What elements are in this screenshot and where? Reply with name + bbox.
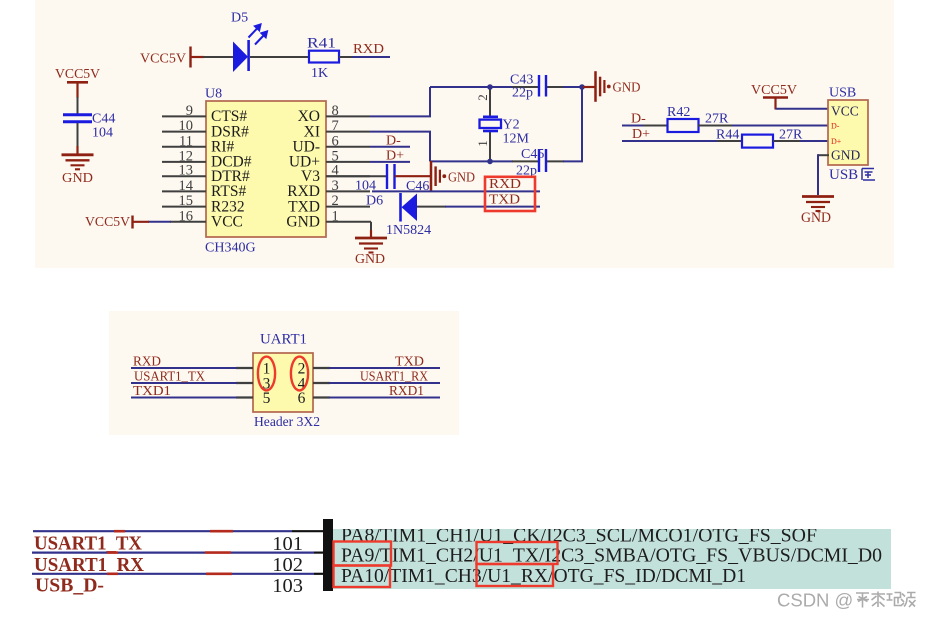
svg-text:R44: R44 — [716, 128, 739, 143]
svg-text:RXD: RXD — [133, 354, 161, 369]
wire — [776, 108, 830, 110]
svg-text:R42: R42 — [667, 105, 690, 120]
wire / net label TXD — [329, 367, 440, 369]
highlight box RXD/TXD — [485, 177, 535, 211]
capacitor C46 104 (on V3) — [326, 175, 386, 177]
junction node — [487, 159, 493, 165]
wire / net label RXD — [131, 367, 237, 369]
svg-text:PA10/TIM1_CH3/U1_RX/OTG_FS_ID/: PA10/TIM1_CH3/U1_RX/OTG_FS_ID/DCMI_D1 — [341, 565, 746, 587]
wire right vertical — [581, 87, 583, 161]
ground GND (C46) — [430, 161, 433, 192]
UART1 pin 1 — [236, 367, 253, 369]
svg-text:GND: GND — [831, 147, 860, 162]
svg-text:TXD: TXD — [395, 354, 424, 369]
ground GND (USB) — [802, 195, 834, 198]
svg-text:PA8/TIM1_CH1/U1_CK/I2C3_SCL/MC: PA8/TIM1_CH1/U1_CK/I2C3_SCL/MCO1/OTG_FS_… — [341, 525, 817, 547]
wire XO to crystal top rail — [370, 115, 431, 117]
wire / net label TXD1 — [131, 397, 237, 399]
wire / net label USART1_RX — [329, 382, 440, 384]
svg-text:C44: C44 — [92, 112, 115, 127]
svg-text:U8: U8 — [205, 87, 222, 102]
resistor R41 — [309, 51, 339, 63]
svg-text:5: 5 — [263, 390, 271, 407]
wire / net label RXD1 — [329, 397, 440, 399]
svg-text:VCC5V: VCC5V — [85, 215, 130, 230]
U8 left pin 11 (RI#) — [162, 146, 206, 148]
highlight box U1_TX — [477, 542, 558, 564]
svg-text:10: 10 — [179, 118, 194, 134]
svg-text:VCC5V: VCC5V — [55, 67, 100, 82]
LED D5 — [233, 42, 248, 73]
svg-text:Header 3X2: Header 3X2 — [254, 415, 320, 430]
svg-text:PA9/TIM1_CH2/U1_TX/I2C3_SMBA/O: PA9/TIM1_CH2/U1_TX/I2C3_SMBA/OTG_FS_VBUS… — [341, 545, 882, 567]
capacitor C43 22p — [538, 75, 540, 97]
U8 left pin 16 (VCC) — [170, 221, 206, 223]
svg-text:VCC: VCC — [211, 214, 243, 231]
wire XI to crystal bottom rail — [370, 131, 431, 133]
U8 left pin 9 (CTS#) — [162, 115, 206, 117]
wire / net label D- — [370, 146, 410, 148]
wire — [818, 154, 829, 156]
ground GND (crystal) — [583, 86, 595, 88]
svg-text:9: 9 — [186, 103, 193, 119]
U8 right pin 4 (V3) — [326, 175, 370, 177]
schematic sheet background (middle) — [109, 311, 459, 435]
svg-text:12M: 12M — [503, 132, 530, 147]
svg-text:Y2: Y2 — [503, 118, 520, 133]
svg-text:USART1_RX: USART1_RX — [360, 369, 428, 384]
junction node — [579, 84, 585, 90]
svg-text:D+: D+ — [632, 127, 650, 142]
wire — [547, 86, 564, 88]
highlight box U1_RX — [477, 564, 554, 586]
svg-text:7: 7 — [332, 118, 339, 134]
wire / net label USART1_TX — [131, 382, 237, 384]
svg-text:1: 1 — [475, 140, 490, 147]
resistor R42 27R — [668, 119, 699, 132]
svg-text:D-: D- — [386, 134, 401, 149]
svg-text:RXD: RXD — [489, 177, 521, 192]
svg-text:11: 11 — [179, 133, 193, 149]
svg-text:6: 6 — [332, 133, 339, 149]
crystal Y2 12M — [489, 86, 491, 117]
pin table highlight background — [333, 529, 891, 589]
svg-text:USB: USB — [829, 167, 858, 183]
svg-text:8: 8 — [332, 103, 339, 119]
svg-text:1N5824: 1N5824 — [386, 223, 431, 238]
U8 left pin 12 (DCD#) — [162, 161, 206, 163]
diode D6 1N5824 — [399, 193, 402, 222]
U8 right pin 1 (GND) — [326, 221, 371, 223]
wire — [512, 86, 538, 88]
svg-text:CSDN @: CSDN @ — [777, 590, 853, 611]
svg-text:3: 3 — [332, 178, 339, 194]
UART1 pin 2 — [313, 367, 330, 369]
svg-text:2: 2 — [475, 94, 490, 101]
U8 right pin 6 (UD-) — [326, 146, 370, 148]
wire — [698, 125, 733, 127]
U8 left pin 14 (RTS#) — [162, 190, 206, 192]
U8 right pin 3 (RXD) — [326, 190, 370, 192]
resistor R44 27R — [742, 135, 773, 148]
UART1 pin 3 — [236, 382, 253, 384]
wire TXD (pin 2) — [417, 206, 446, 208]
svg-text:USART1_RX: USART1_RX — [34, 554, 144, 576]
svg-text:UART1: UART1 — [260, 332, 307, 348]
svg-text:D-: D- — [831, 121, 840, 130]
UART1 pin 5 — [236, 396, 253, 398]
pin table chip edge bar — [323, 519, 333, 591]
svg-text:2: 2 — [332, 193, 339, 209]
wire — [339, 56, 353, 58]
svg-text:GND: GND — [286, 214, 320, 231]
U8 right pin 2 (TXD) — [326, 206, 370, 208]
svg-text:VCC5V: VCC5V — [140, 52, 186, 67]
svg-text:VCC: VCC — [831, 103, 859, 118]
svg-text:CH340G: CH340G — [205, 241, 256, 256]
ground GND (below C44) — [76, 146, 78, 154]
svg-text:1K: 1K — [311, 66, 328, 81]
wire — [512, 160, 538, 162]
svg-text:RXD1: RXD1 — [389, 383, 424, 398]
capacitor C45 22p — [538, 149, 540, 172]
svg-text:USART1_TX: USART1_TX — [34, 533, 142, 555]
svg-text:USB: USB — [829, 86, 856, 101]
U8 right pin 5 (UD+) — [326, 161, 370, 163]
capacitor C44 — [63, 113, 92, 116]
svg-text:C45: C45 — [521, 147, 544, 162]
wire — [547, 160, 564, 162]
wire (row above, cut) — [33, 530, 114, 532]
svg-text:GND: GND — [355, 252, 385, 267]
watermark chinese glyphs — [856, 593, 869, 608]
svg-text:104: 104 — [92, 126, 113, 141]
svg-text:GND: GND — [448, 171, 475, 186]
U8 left pin 13 (DTR#) — [162, 175, 206, 177]
svg-text:GND: GND — [613, 80, 641, 95]
svg-text:16: 16 — [179, 208, 194, 224]
schematic sheet background (top) — [35, 0, 894, 268]
wire — [395, 175, 431, 177]
svg-text:TXD1: TXD1 — [133, 383, 171, 398]
U8 left pin 15 (R232) — [162, 206, 206, 208]
svg-text:USB_D-: USB_D- — [35, 575, 104, 597]
svg-text:VCC5V: VCC5V — [751, 83, 797, 98]
UART1 pin 4 — [313, 382, 330, 384]
highlight ellipse pins 1-3 — [258, 357, 275, 391]
svg-text:D-: D- — [631, 111, 646, 126]
svg-text:D6: D6 — [366, 194, 383, 209]
U8 left pin 10 (DSR#) — [162, 131, 206, 133]
svg-text:R41: R41 — [307, 36, 336, 52]
svg-text:6: 6 — [298, 390, 306, 407]
svg-text:15: 15 — [179, 193, 194, 209]
op-amp U8 CH340G body — [206, 101, 326, 237]
svg-text:13: 13 — [179, 163, 194, 179]
svg-text:RXD: RXD — [353, 42, 384, 57]
svg-text:1: 1 — [332, 208, 339, 224]
wire — [77, 123, 79, 147]
highlight box PA10 — [334, 566, 391, 588]
svg-text:TXD: TXD — [489, 192, 520, 207]
svg-text:GND: GND — [801, 210, 831, 226]
highlight ellipse pins 2-4 — [291, 357, 308, 391]
svg-text:GND: GND — [62, 171, 93, 186]
wire / net label D+ — [370, 161, 410, 163]
highlight box PA9 — [334, 542, 392, 566]
wire — [370, 222, 372, 231]
junction node — [487, 84, 493, 90]
wire — [250, 56, 309, 58]
svg-text:D+: D+ — [386, 149, 404, 164]
wire — [203, 56, 234, 58]
svg-text:27R: 27R — [705, 111, 729, 126]
svg-text:D5: D5 — [231, 11, 248, 26]
UART1 pin 6 — [313, 396, 330, 398]
U8 right pin 7 (XI) — [326, 131, 370, 133]
U8 right pin 8 (XO) — [326, 115, 370, 117]
wire — [77, 97, 79, 114]
svg-text:USART1_TX: USART1_TX — [134, 369, 205, 384]
svg-text:14: 14 — [179, 178, 194, 194]
wire — [773, 140, 801, 142]
connector USB (USB座) — [828, 100, 868, 165]
ground GND (pin 1) — [355, 237, 387, 240]
svg-text:103: 103 — [272, 575, 303, 597]
svg-text:22p: 22p — [512, 86, 533, 101]
svg-text:D+: D+ — [831, 137, 842, 146]
wire RXD (pin 3) — [372, 190, 540, 192]
